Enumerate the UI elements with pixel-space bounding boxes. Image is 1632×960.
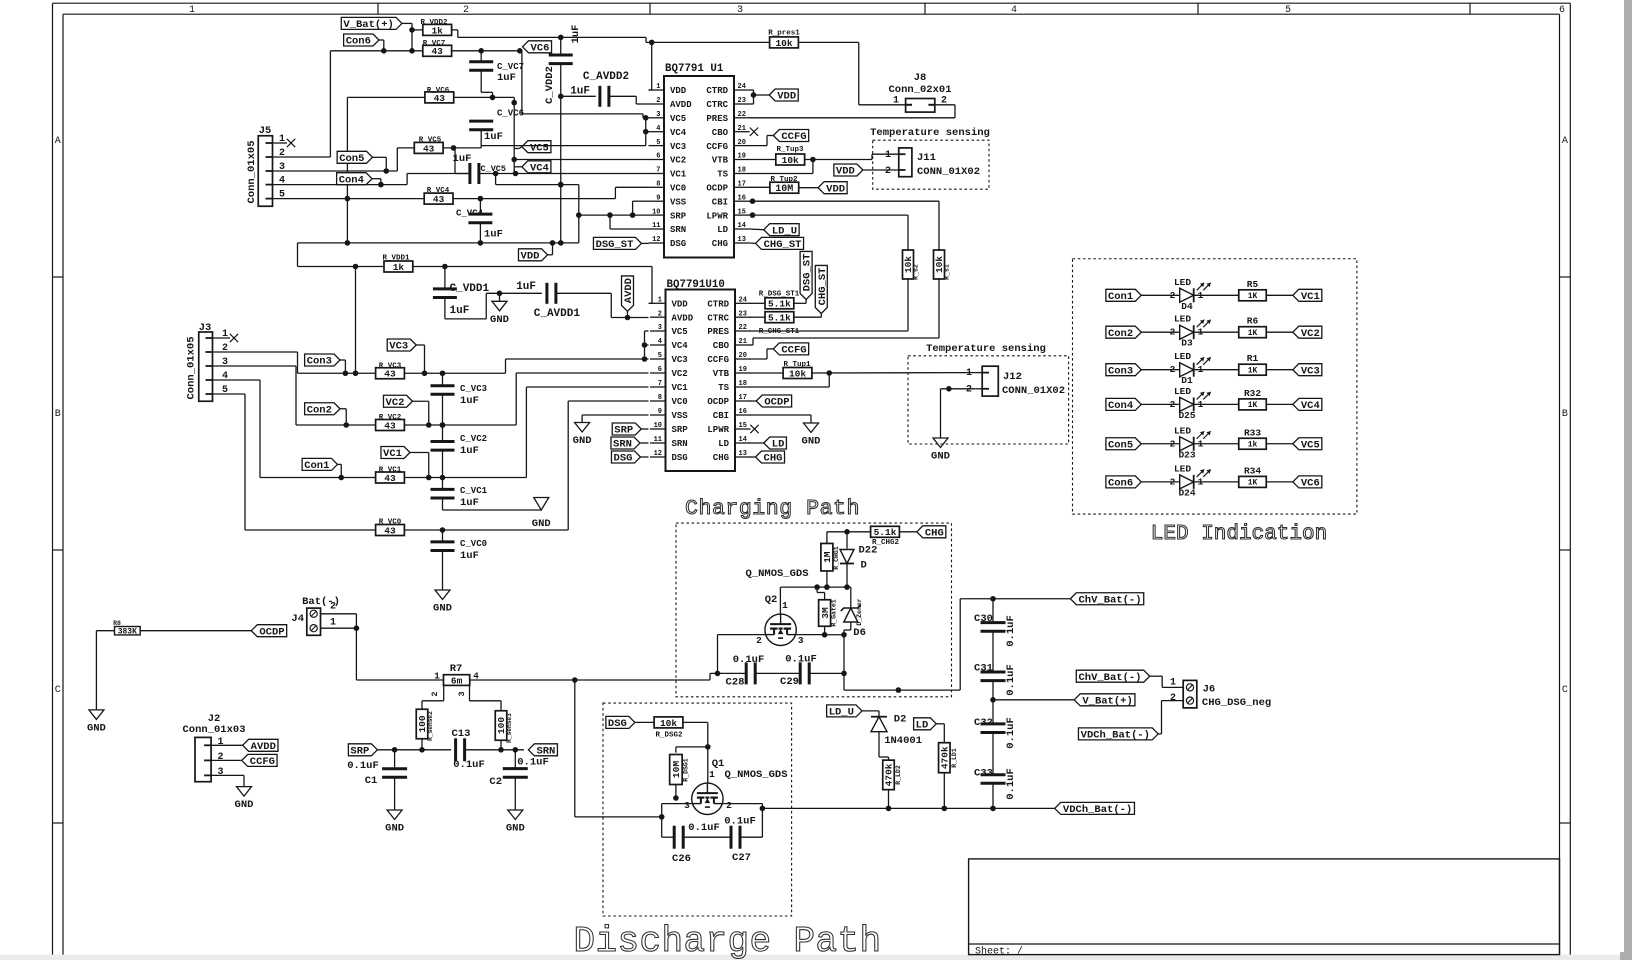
svg-text:DSG: DSG bbox=[670, 239, 686, 249]
svg-text:R_VC0: R_VC0 bbox=[379, 519, 402, 527]
svg-text:C_VC2: C_VC2 bbox=[460, 434, 487, 444]
svg-text:11: 11 bbox=[652, 222, 660, 230]
svg-text:CCFG: CCFG bbox=[781, 131, 806, 143]
svg-text:1uF: 1uF bbox=[484, 131, 503, 143]
svg-text:C2: C2 bbox=[489, 776, 502, 788]
svg-text:0.1uF: 0.1uF bbox=[1005, 717, 1017, 749]
svg-text:C: C bbox=[55, 685, 61, 696]
svg-text:Temperature sensing: Temperature sensing bbox=[870, 127, 990, 139]
svg-text:LD: LD bbox=[916, 719, 929, 731]
svg-text:R_VC2: R_VC2 bbox=[379, 414, 402, 422]
svg-text:LED: LED bbox=[1174, 277, 1191, 288]
svg-text:C31: C31 bbox=[974, 662, 993, 674]
svg-text:GND: GND bbox=[506, 823, 525, 835]
svg-text:R_pres1: R_pres1 bbox=[768, 30, 800, 38]
svg-text:1uF: 1uF bbox=[460, 550, 479, 562]
svg-text:Charging Path: Charging Path bbox=[685, 497, 860, 521]
svg-text:6m: 6m bbox=[451, 675, 463, 686]
svg-text:VC1: VC1 bbox=[1301, 291, 1320, 303]
svg-text:14: 14 bbox=[739, 436, 747, 444]
svg-text:OCDP: OCDP bbox=[706, 184, 728, 194]
svg-text:VTB: VTB bbox=[712, 156, 729, 166]
svg-text:C30: C30 bbox=[974, 613, 993, 625]
svg-text:5.1k: 5.1k bbox=[768, 299, 791, 310]
svg-text:VTB: VTB bbox=[713, 369, 730, 379]
svg-text:VC2: VC2 bbox=[1301, 328, 1320, 340]
svg-text:Temperature sensing: Temperature sensing bbox=[926, 343, 1046, 355]
svg-text:J8: J8 bbox=[914, 72, 927, 84]
svg-text:GND: GND bbox=[385, 823, 404, 835]
svg-text:2: 2 bbox=[279, 148, 285, 159]
svg-text:GND: GND bbox=[235, 799, 254, 811]
svg-text:VC4: VC4 bbox=[670, 128, 687, 138]
svg-text:Con6: Con6 bbox=[346, 36, 371, 48]
svg-text:C26: C26 bbox=[672, 853, 691, 865]
svg-text:VC1: VC1 bbox=[672, 383, 689, 393]
svg-text:C1: C1 bbox=[365, 775, 378, 787]
svg-text:21: 21 bbox=[739, 338, 747, 346]
svg-text:43: 43 bbox=[384, 525, 396, 536]
svg-text:C32: C32 bbox=[974, 717, 993, 729]
svg-text:4: 4 bbox=[658, 338, 662, 346]
svg-text:Con1: Con1 bbox=[304, 460, 329, 472]
svg-text:R34: R34 bbox=[1244, 465, 1261, 476]
svg-text:23: 23 bbox=[739, 310, 747, 318]
svg-text:0.1uF: 0.1uF bbox=[1005, 768, 1017, 800]
svg-text:C_VC7: C_VC7 bbox=[497, 62, 524, 72]
svg-text:J3: J3 bbox=[199, 322, 212, 334]
svg-text:2: 2 bbox=[1170, 476, 1176, 487]
svg-text:Con3: Con3 bbox=[1108, 365, 1133, 377]
svg-text:2: 2 bbox=[1170, 399, 1176, 410]
svg-text:CONN_01X02: CONN_01X02 bbox=[1002, 385, 1065, 397]
svg-text:2: 2 bbox=[966, 385, 972, 396]
svg-text:Conn_01x05: Conn_01x05 bbox=[186, 336, 198, 399]
svg-text:R_VC6: R_VC6 bbox=[427, 87, 450, 95]
svg-text:2: 2 bbox=[1170, 438, 1176, 449]
svg-text:PRES: PRES bbox=[706, 114, 728, 124]
svg-text:PRES: PRES bbox=[707, 327, 729, 337]
svg-text:2: 2 bbox=[726, 800, 732, 811]
svg-text:DSG: DSG bbox=[672, 453, 688, 463]
svg-text:2: 2 bbox=[222, 343, 228, 354]
svg-text:CBO: CBO bbox=[713, 341, 730, 351]
svg-text:2: 2 bbox=[1170, 290, 1176, 301]
svg-text:ChV_Bat(-): ChV_Bat(-) bbox=[1079, 594, 1142, 606]
svg-text:7: 7 bbox=[656, 167, 660, 175]
svg-text:R33: R33 bbox=[1244, 427, 1261, 438]
svg-text:OCDP: OCDP bbox=[707, 397, 729, 407]
svg-text:SRN: SRN bbox=[670, 225, 686, 235]
svg-text:1: 1 bbox=[218, 737, 224, 748]
svg-text:383K: 383K bbox=[118, 627, 137, 636]
svg-text:3: 3 bbox=[737, 5, 743, 16]
svg-text:BQ7791U10: BQ7791U10 bbox=[667, 279, 725, 291]
svg-text:22: 22 bbox=[739, 324, 747, 332]
svg-text:R8: R8 bbox=[113, 620, 121, 627]
svg-text:18: 18 bbox=[738, 167, 746, 175]
svg-text:V_Bat(+): V_Bat(+) bbox=[343, 19, 393, 31]
svg-text:CBO: CBO bbox=[712, 128, 729, 138]
svg-text:1: 1 bbox=[966, 368, 972, 379]
svg-text:R_LD2: R_LD2 bbox=[895, 765, 902, 785]
svg-text:VDD: VDD bbox=[672, 300, 689, 310]
svg-text:3: 3 bbox=[658, 324, 662, 332]
svg-text:17: 17 bbox=[739, 394, 747, 402]
svg-text:R_DSG1: R_DSG1 bbox=[683, 758, 690, 782]
svg-text:CONN_01X02: CONN_01X02 bbox=[917, 166, 980, 178]
svg-text:2: 2 bbox=[1170, 693, 1176, 704]
svg-text:J11: J11 bbox=[917, 152, 936, 164]
svg-text:Conn_02x01: Conn_02x01 bbox=[888, 84, 951, 96]
svg-text:GND: GND bbox=[573, 435, 592, 447]
svg-text:13: 13 bbox=[738, 236, 746, 244]
svg-text:CTRD: CTRD bbox=[707, 300, 729, 310]
svg-text:C_VC6: C_VC6 bbox=[497, 109, 524, 119]
svg-text:2: 2 bbox=[463, 5, 469, 16]
svg-text:VC3: VC3 bbox=[672, 355, 688, 365]
svg-text:3: 3 bbox=[279, 162, 285, 173]
svg-text:LED: LED bbox=[1174, 386, 1191, 397]
svg-text:LD: LD bbox=[772, 439, 785, 451]
svg-text:1uF: 1uF bbox=[497, 72, 516, 84]
svg-text:1uF: 1uF bbox=[450, 305, 470, 317]
svg-text:LPWR: LPWR bbox=[707, 425, 729, 435]
svg-text:VDD: VDD bbox=[777, 91, 796, 103]
svg-text:R_VC3: R_VC3 bbox=[379, 363, 402, 371]
svg-text:10: 10 bbox=[652, 208, 660, 216]
svg-text:B: B bbox=[55, 409, 61, 420]
svg-text:CBI: CBI bbox=[712, 197, 728, 207]
svg-text:2: 2 bbox=[330, 602, 336, 613]
svg-text:VC4: VC4 bbox=[1301, 400, 1320, 412]
svg-text:22: 22 bbox=[738, 111, 746, 119]
svg-text:3: 3 bbox=[218, 767, 224, 778]
svg-text:TS: TS bbox=[717, 170, 728, 180]
svg-text:VC6: VC6 bbox=[1301, 477, 1320, 489]
svg-text:19: 19 bbox=[739, 366, 747, 374]
svg-text:B: B bbox=[1562, 409, 1568, 420]
svg-text:Con6: Con6 bbox=[1108, 477, 1133, 489]
svg-text:5: 5 bbox=[658, 352, 662, 360]
svg-text:2: 2 bbox=[1170, 364, 1176, 375]
svg-text:Con4: Con4 bbox=[339, 174, 364, 186]
svg-text:CTRD: CTRD bbox=[706, 86, 728, 96]
svg-text:VDD: VDD bbox=[670, 86, 687, 96]
svg-text:0.1uF: 0.1uF bbox=[785, 654, 817, 666]
svg-text:GND: GND bbox=[931, 451, 950, 463]
svg-text:5.1k: 5.1k bbox=[768, 313, 791, 324]
svg-text:2: 2 bbox=[941, 96, 947, 107]
svg-text:A: A bbox=[55, 136, 61, 147]
svg-text:R_CHG1: R_CHG1 bbox=[833, 546, 840, 570]
svg-text:8: 8 bbox=[656, 181, 660, 189]
svg-text:VDD: VDD bbox=[521, 250, 540, 262]
svg-text:Con4: Con4 bbox=[1108, 400, 1133, 412]
svg-text:6: 6 bbox=[656, 153, 660, 161]
svg-text:BQ7791 U1: BQ7791 U1 bbox=[665, 63, 724, 75]
svg-text:2: 2 bbox=[656, 97, 660, 105]
svg-text:1uF: 1uF bbox=[460, 497, 479, 509]
svg-text:J6: J6 bbox=[1203, 684, 1216, 696]
svg-text:CHG: CHG bbox=[712, 239, 728, 249]
svg-text:1: 1 bbox=[1170, 678, 1176, 689]
svg-text:43: 43 bbox=[384, 473, 396, 484]
svg-text:R5: R5 bbox=[1247, 279, 1259, 290]
svg-text:1uF: 1uF bbox=[570, 86, 590, 98]
svg-text:CCFG: CCFG bbox=[706, 142, 728, 152]
svg-text:VSS: VSS bbox=[670, 197, 687, 207]
svg-text:1M: 1M bbox=[822, 551, 833, 563]
svg-text:LD: LD bbox=[717, 225, 728, 235]
svg-text:0.1uF: 0.1uF bbox=[1005, 664, 1017, 696]
svg-text:J12: J12 bbox=[1003, 371, 1022, 383]
svg-text:C29: C29 bbox=[780, 676, 799, 688]
svg-text:Con5: Con5 bbox=[339, 153, 364, 165]
svg-text:LED: LED bbox=[1174, 463, 1191, 474]
svg-text:5: 5 bbox=[222, 385, 228, 396]
svg-text:CTRC: CTRC bbox=[706, 100, 728, 110]
svg-text:GND: GND bbox=[532, 518, 551, 530]
svg-text:R_s1: R_s1 bbox=[944, 264, 951, 280]
svg-text:GND: GND bbox=[433, 603, 452, 615]
svg-text:R_CHG_ST1: R_CHG_ST1 bbox=[759, 328, 800, 336]
svg-text:CHG: CHG bbox=[925, 527, 944, 539]
svg-text:R_VC5: R_VC5 bbox=[419, 137, 442, 145]
svg-text:R_Tup3: R_Tup3 bbox=[776, 146, 804, 154]
svg-text:SRN: SRN bbox=[672, 439, 688, 449]
svg-text:A: A bbox=[1562, 136, 1568, 147]
svg-text:VC6: VC6 bbox=[531, 42, 550, 54]
svg-text:D23: D23 bbox=[1178, 449, 1195, 460]
svg-text:1K: 1K bbox=[1248, 479, 1258, 488]
svg-text:4: 4 bbox=[1011, 5, 1017, 16]
svg-text:43: 43 bbox=[423, 143, 435, 154]
svg-text:VDCh_Bat(-): VDCh_Bat(-) bbox=[1081, 729, 1150, 741]
svg-text:R_VDD1: R_VDD1 bbox=[382, 255, 410, 263]
svg-text:LD_U: LD_U bbox=[772, 225, 797, 237]
svg-text:R_Tup2: R_Tup2 bbox=[770, 176, 798, 184]
svg-text:D22: D22 bbox=[859, 545, 878, 557]
svg-text:1K: 1K bbox=[1248, 367, 1258, 376]
svg-text:D1: D1 bbox=[1181, 375, 1193, 386]
svg-text:7: 7 bbox=[658, 380, 662, 388]
svg-text:R_DSG2: R_DSG2 bbox=[655, 732, 683, 740]
svg-text:16: 16 bbox=[739, 408, 747, 416]
svg-text:2: 2 bbox=[658, 310, 662, 318]
svg-text:470k: 470k bbox=[940, 746, 951, 769]
svg-text:VC0: VC0 bbox=[670, 184, 686, 194]
svg-text:43: 43 bbox=[433, 194, 445, 205]
svg-text:12: 12 bbox=[654, 450, 662, 458]
svg-text:CCFG: CCFG bbox=[707, 355, 729, 365]
svg-text:Conn_01x05: Conn_01x05 bbox=[246, 140, 258, 203]
svg-text:Q_NMOS_GDS: Q_NMOS_GDS bbox=[745, 568, 808, 580]
svg-text:Con1: Con1 bbox=[1108, 291, 1133, 303]
svg-text:CHG: CHG bbox=[764, 453, 783, 465]
svg-text:2: 2 bbox=[430, 691, 440, 696]
svg-text:CHG_ST: CHG_ST bbox=[817, 268, 829, 306]
svg-text:Sheet: /: Sheet: / bbox=[975, 946, 1023, 958]
svg-text:C_VC1: C_VC1 bbox=[460, 486, 488, 496]
svg-text:9: 9 bbox=[656, 194, 660, 202]
svg-text:C_AVDD1: C_AVDD1 bbox=[534, 308, 581, 320]
svg-text:1: 1 bbox=[434, 671, 440, 682]
svg-text:R_LD1: R_LD1 bbox=[951, 748, 958, 768]
svg-text:R_DSG_ST1: R_DSG_ST1 bbox=[759, 291, 800, 299]
svg-text:10k: 10k bbox=[789, 368, 806, 379]
svg-text:R_VC7: R_VC7 bbox=[423, 40, 446, 48]
svg-text:LD: LD bbox=[718, 439, 729, 449]
svg-text:0.1uF: 0.1uF bbox=[733, 654, 765, 666]
svg-text:LPWR: LPWR bbox=[706, 211, 728, 221]
svg-text:5.1k: 5.1k bbox=[874, 527, 897, 538]
svg-text:VC0: VC0 bbox=[672, 397, 688, 407]
svg-text:J5: J5 bbox=[259, 125, 272, 137]
svg-text:1uF: 1uF bbox=[453, 153, 472, 165]
svg-text:43: 43 bbox=[384, 420, 396, 431]
svg-text:0.1uF: 0.1uF bbox=[347, 760, 379, 772]
svg-text:1: 1 bbox=[656, 83, 660, 91]
svg-text:SRN: SRN bbox=[613, 439, 632, 451]
svg-text:R_sense3: R_sense3 bbox=[506, 713, 513, 743]
svg-text:OCDP: OCDP bbox=[259, 626, 284, 638]
svg-text:Conn_01x03: Conn_01x03 bbox=[182, 724, 245, 736]
svg-text:OCDP: OCDP bbox=[764, 397, 789, 409]
svg-text:R_s2: R_s2 bbox=[913, 264, 920, 280]
svg-text:VDD: VDD bbox=[836, 166, 855, 178]
svg-text:AVDD: AVDD bbox=[251, 741, 276, 753]
svg-text:R_Gate1: R_Gate1 bbox=[831, 599, 838, 626]
svg-text:1: 1 bbox=[709, 769, 715, 780]
svg-text:1k: 1k bbox=[1248, 441, 1258, 450]
svg-text:C_AVDD2: C_AVDD2 bbox=[583, 71, 629, 83]
svg-text:3: 3 bbox=[222, 357, 228, 368]
svg-text:C27: C27 bbox=[732, 852, 751, 864]
svg-text:5: 5 bbox=[656, 139, 660, 147]
svg-text:DSG: DSG bbox=[614, 453, 633, 465]
svg-text:1K: 1K bbox=[1248, 292, 1258, 301]
svg-text:C_VC4: C_VC4 bbox=[456, 209, 484, 219]
svg-text:10k: 10k bbox=[775, 38, 792, 49]
svg-text:SRP: SRP bbox=[672, 425, 689, 435]
svg-text:24: 24 bbox=[739, 297, 747, 305]
svg-text:5: 5 bbox=[279, 190, 285, 201]
svg-text:10: 10 bbox=[654, 422, 662, 430]
svg-text:6: 6 bbox=[1559, 5, 1565, 16]
svg-text:1K: 1K bbox=[1248, 401, 1258, 410]
svg-text:0.1uF: 0.1uF bbox=[453, 759, 485, 771]
svg-text:15: 15 bbox=[739, 422, 747, 430]
svg-text:11: 11 bbox=[654, 436, 662, 444]
svg-text:6: 6 bbox=[658, 366, 662, 374]
svg-text:C_VC3: C_VC3 bbox=[460, 384, 487, 394]
svg-text:VC3: VC3 bbox=[1301, 365, 1320, 377]
svg-text:1: 1 bbox=[658, 297, 662, 305]
svg-text:DSG: DSG bbox=[608, 718, 627, 730]
svg-text:C28: C28 bbox=[726, 677, 745, 689]
svg-text:8: 8 bbox=[658, 394, 662, 402]
svg-text:VC3: VC3 bbox=[670, 142, 686, 152]
svg-text:VDD: VDD bbox=[826, 183, 845, 195]
svg-text:0.1uF: 0.1uF bbox=[517, 757, 549, 769]
svg-text:R32: R32 bbox=[1244, 388, 1261, 399]
svg-text:SRP: SRP bbox=[670, 211, 687, 221]
svg-text:3M: 3M bbox=[820, 607, 831, 619]
svg-text:2: 2 bbox=[756, 635, 762, 646]
svg-text:C_VDD1: C_VDD1 bbox=[450, 283, 490, 295]
svg-text:D: D bbox=[861, 560, 867, 572]
svg-text:AVDD: AVDD bbox=[623, 278, 635, 303]
svg-text:1uF: 1uF bbox=[460, 395, 479, 407]
svg-text:C13: C13 bbox=[452, 728, 471, 740]
svg-text:R_VC1: R_VC1 bbox=[379, 466, 402, 474]
svg-text:GND: GND bbox=[802, 436, 821, 448]
svg-text:VC2: VC2 bbox=[670, 156, 686, 166]
svg-text:15: 15 bbox=[738, 208, 746, 216]
svg-text:3: 3 bbox=[457, 691, 467, 696]
svg-text:2: 2 bbox=[885, 166, 891, 177]
svg-text:10M: 10M bbox=[671, 761, 682, 778]
svg-text:VC4: VC4 bbox=[672, 341, 689, 351]
svg-text:1K: 1K bbox=[1248, 329, 1258, 338]
svg-text:D3: D3 bbox=[1181, 338, 1193, 349]
svg-text:VC5: VC5 bbox=[530, 142, 549, 154]
svg-text:2: 2 bbox=[1170, 327, 1176, 338]
svg-text:10k: 10k bbox=[660, 718, 677, 729]
svg-text:Con5: Con5 bbox=[1108, 439, 1133, 451]
svg-text:LED: LED bbox=[1174, 314, 1191, 325]
svg-text:1N4001: 1N4001 bbox=[884, 735, 922, 747]
svg-text:R_VDD2: R_VDD2 bbox=[420, 19, 448, 27]
svg-text:0.1uF: 0.1uF bbox=[724, 816, 756, 828]
svg-text:DSG_ST: DSG_ST bbox=[596, 239, 634, 251]
svg-text:12: 12 bbox=[652, 236, 660, 244]
svg-text:VC1: VC1 bbox=[383, 448, 402, 460]
svg-text:0.1uF: 0.1uF bbox=[688, 822, 720, 834]
svg-text:Con2: Con2 bbox=[1108, 328, 1133, 340]
svg-text:D24: D24 bbox=[1178, 487, 1195, 498]
svg-text:19: 19 bbox=[738, 153, 746, 161]
svg-text:1: 1 bbox=[189, 5, 195, 16]
svg-text:ChV_Bat(-): ChV_Bat(-) bbox=[1078, 672, 1141, 684]
svg-text:AVDD: AVDD bbox=[670, 100, 692, 110]
svg-text:1uF: 1uF bbox=[516, 281, 536, 293]
svg-text:17: 17 bbox=[738, 181, 746, 189]
svg-text:LD_U: LD_U bbox=[829, 706, 854, 718]
svg-text:VC5: VC5 bbox=[672, 327, 688, 337]
svg-text:13: 13 bbox=[739, 450, 747, 458]
svg-text:VC2: VC2 bbox=[386, 397, 405, 409]
svg-text:3: 3 bbox=[798, 635, 804, 646]
svg-text:470k: 470k bbox=[884, 763, 895, 786]
svg-text:DSG_ST: DSG_ST bbox=[802, 254, 814, 292]
svg-text:VDCh_Bat(-): VDCh_Bat(-) bbox=[1063, 804, 1132, 816]
svg-text:10k: 10k bbox=[782, 155, 799, 166]
svg-text:20: 20 bbox=[738, 139, 746, 147]
svg-text:CHG_ST: CHG_ST bbox=[764, 239, 802, 251]
svg-text:0.1uF: 0.1uF bbox=[1005, 615, 1017, 647]
svg-text:C33: C33 bbox=[974, 768, 993, 780]
svg-text:SRP: SRP bbox=[614, 425, 633, 437]
svg-text:VC1: VC1 bbox=[670, 170, 687, 180]
svg-text:20: 20 bbox=[739, 352, 747, 360]
svg-text:GND: GND bbox=[87, 722, 106, 734]
svg-text:VC3: VC3 bbox=[389, 341, 408, 353]
svg-text:CBI: CBI bbox=[713, 411, 729, 421]
svg-text:D25: D25 bbox=[1178, 410, 1195, 421]
svg-text:CTRC: CTRC bbox=[707, 313, 729, 323]
